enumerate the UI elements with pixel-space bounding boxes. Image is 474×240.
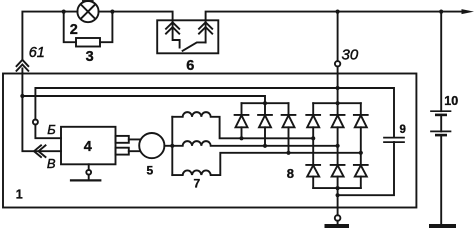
svg-text:В: В — [47, 156, 56, 171]
svg-text:Б: Б — [47, 122, 56, 137]
svg-text:5: 5 — [147, 164, 154, 178]
svg-text:61: 61 — [29, 45, 45, 61]
svg-text:8: 8 — [287, 166, 294, 181]
svg-text:6: 6 — [186, 58, 194, 74]
svg-text:30: 30 — [342, 47, 359, 64]
svg-text:4: 4 — [84, 139, 92, 155]
svg-text:2: 2 — [70, 22, 78, 38]
svg-text:10: 10 — [444, 94, 458, 108]
svg-text:7: 7 — [194, 177, 201, 191]
svg-text:9: 9 — [400, 124, 406, 136]
svg-text:3: 3 — [86, 49, 94, 65]
svg-text:1: 1 — [16, 187, 23, 201]
